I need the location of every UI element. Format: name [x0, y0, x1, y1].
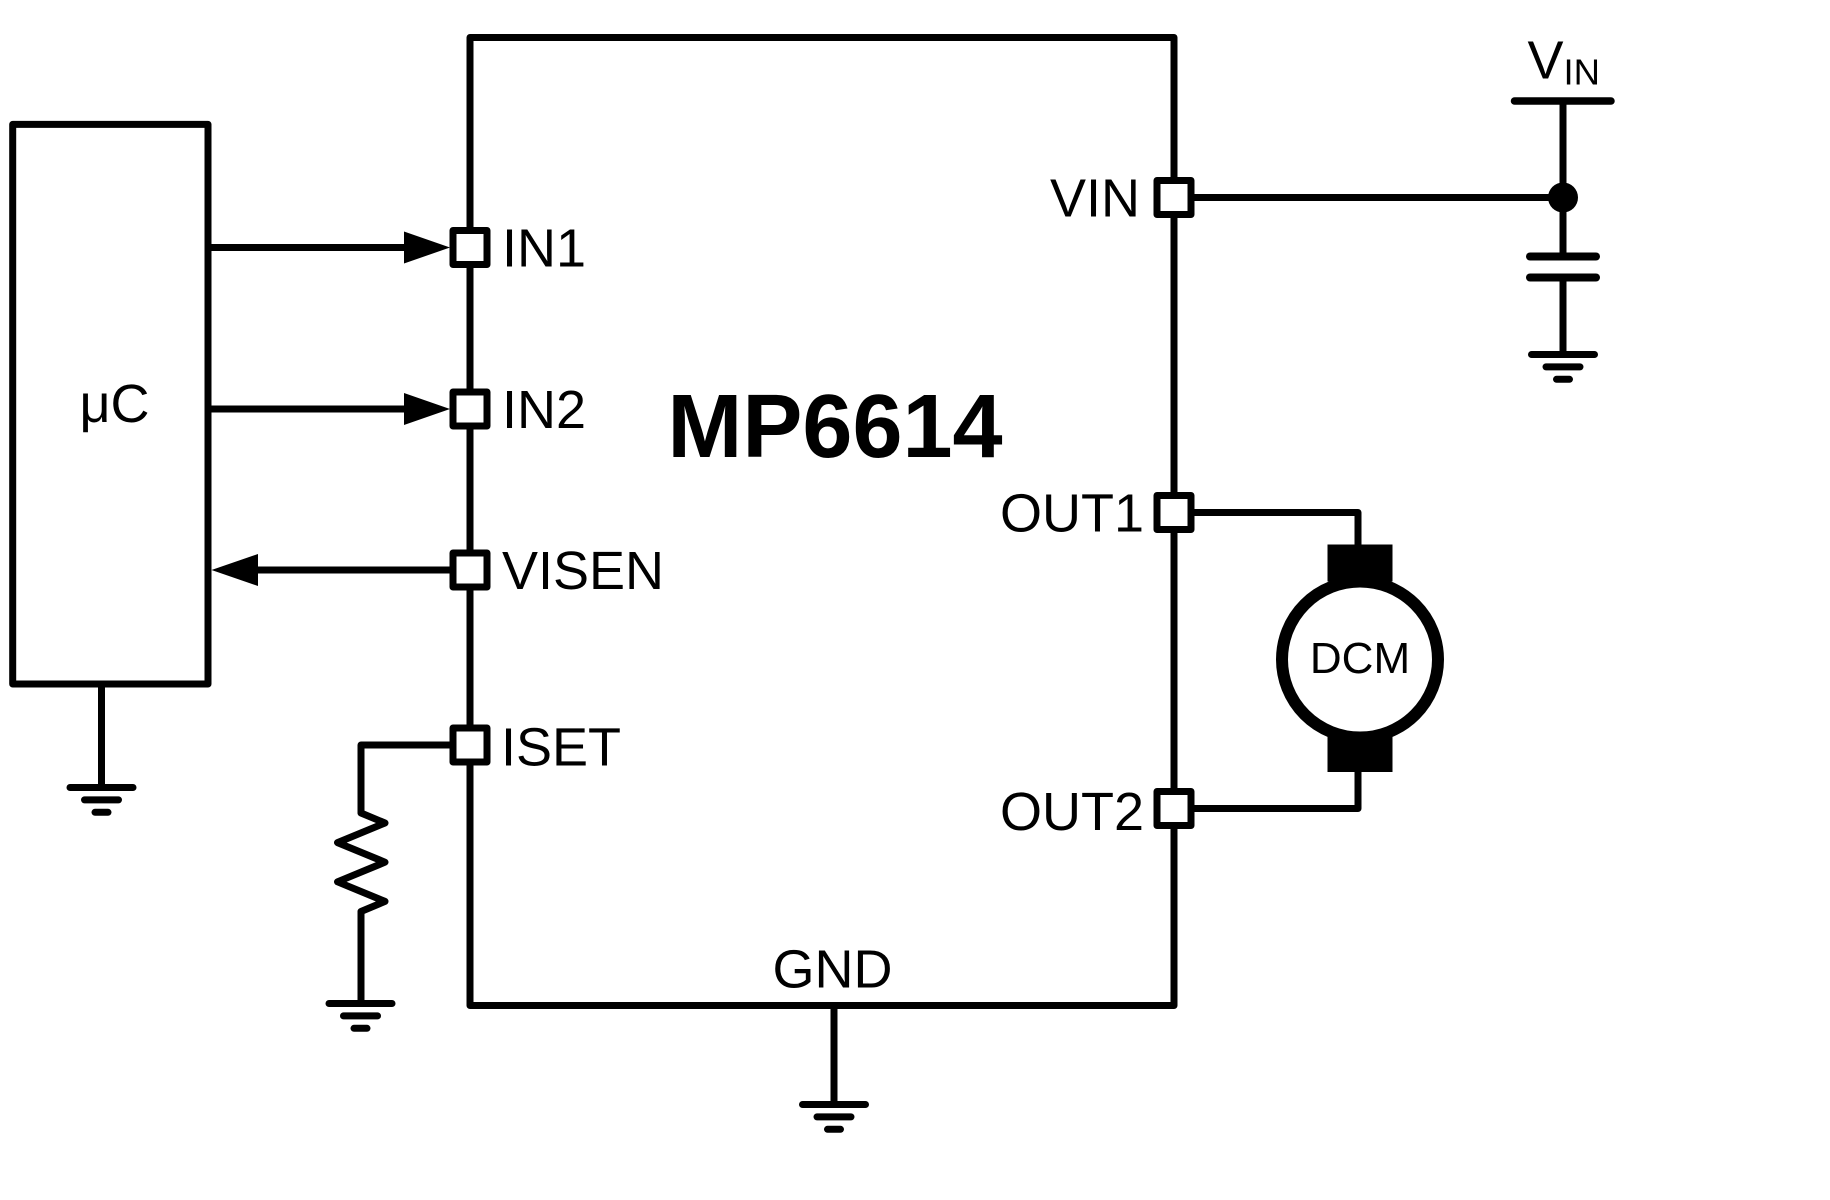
svg-text:IN1: IN1 [502, 219, 586, 279]
arrowhead into IN2 [404, 393, 450, 425]
svg-text:GND: GND [773, 940, 893, 1000]
wire resistor to ground [358, 912, 365, 1004]
wire μC to IN1 [208, 244, 410, 251]
svg-text:IN2: IN2 [502, 380, 586, 440]
wire node to capacitor [1560, 198, 1567, 254]
svg-text:VIN: VIN [1050, 169, 1140, 229]
pin ISET [453, 728, 487, 762]
microcontroller block μC [13, 124, 208, 684]
pin IN1 [453, 231, 487, 265]
svg-text:MP6614: MP6614 [667, 377, 1002, 477]
ground (μC) [70, 788, 133, 813]
svg-text:DCM: DCM [1310, 634, 1410, 683]
pin VIN [1157, 181, 1191, 215]
ground (capacitor) [1532, 355, 1595, 380]
motor DCM top terminal [1328, 545, 1393, 582]
wire motor to OUT2 [1195, 770, 1359, 809]
wire VISEN to μC [252, 567, 450, 574]
svg-text:μC: μC [79, 374, 149, 434]
resistor R-ISET [338, 813, 386, 912]
VIN supply bar [1515, 97, 1612, 105]
wire capacitor to ground [1560, 282, 1567, 355]
arrowhead into IN1 [404, 232, 450, 264]
motor DCM body [1282, 582, 1438, 738]
svg-text:OUT2: OUT2 [1000, 782, 1144, 842]
wire OUT1 to motor [1195, 513, 1359, 549]
ground (GND) [803, 1105, 866, 1130]
wire μC to IN2 [208, 406, 410, 413]
motor DCM bottom terminal [1328, 736, 1393, 772]
pin VISEN [453, 553, 487, 587]
pin IN2 [453, 392, 487, 426]
arrowhead into μC [212, 554, 259, 586]
wire VIN pin to input node [1195, 194, 1564, 201]
svg-text:ISET: ISET [501, 718, 621, 778]
wire GND pin to ground [831, 1006, 838, 1105]
ground (resistor) [329, 1004, 392, 1029]
capacitor C-IN [1530, 257, 1596, 278]
node VIN junction [1548, 183, 1578, 213]
svg-text:IN: IN [1564, 52, 1601, 93]
svg-text:OUT1: OUT1 [1000, 484, 1144, 544]
svg-text:V: V [1528, 31, 1564, 91]
svg-text:VISEN: VISEN [502, 541, 664, 601]
wire VIN bar to node [1560, 101, 1567, 198]
wire μC to ground [98, 684, 105, 788]
pin OUT2 [1157, 792, 1191, 826]
pin OUT1 [1157, 496, 1191, 530]
wire ISET to resistor [361, 745, 450, 813]
IC U1 MP6614 body [470, 38, 1174, 1006]
